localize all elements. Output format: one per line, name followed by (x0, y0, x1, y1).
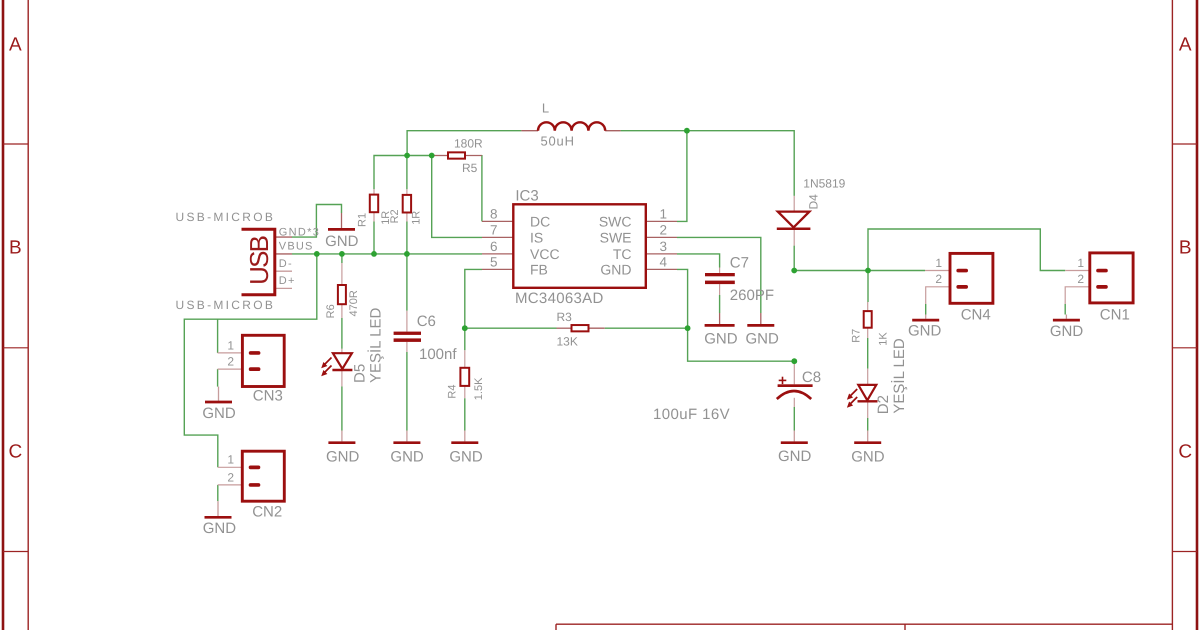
node L-input (junction) (404, 153, 410, 159)
svg-text:USB-MICROB: USB-MICROB (176, 298, 276, 312)
svg-text:USB: USB (244, 236, 274, 285)
wire IC pin2 SWE to ground (677, 237, 761, 313)
frame row separators (3, 143, 28, 145)
svg-text:CN3: CN3 (253, 388, 283, 405)
node FB-right (junction) (685, 325, 691, 331)
svg-text:CN4: CN4 (961, 306, 991, 323)
svg-text:SWE: SWE (600, 229, 632, 245)
R3 leads (557, 327, 572, 329)
R6 leads (341, 263, 343, 285)
ground (IC pin2 SWE) (746, 313, 780, 348)
wire LED D5 to ground (341, 386, 343, 430)
svg-text:100nf: 100nf (419, 346, 457, 363)
wire inductor output to D4 anode (621, 131, 795, 196)
svg-text:C: C (9, 441, 23, 462)
wire R5 to IC pin8 DC (481, 155, 483, 221)
wire CN1 pin2 to ground (1064, 304, 1066, 315)
svg-text:USB-MICROB: USB-MICROB (176, 210, 276, 224)
wire R3 to pin4 node (605, 327, 688, 329)
svg-text:7: 7 (490, 222, 498, 237)
svg-text:MC34063AD: MC34063AD (515, 290, 604, 307)
svg-text:100uF 16V: 100uF 16V (653, 406, 730, 423)
svg-text:CN1: CN1 (1100, 306, 1130, 323)
wire output rail down to R7 (867, 271, 869, 303)
ground (CN4) (908, 315, 942, 340)
svg-text:R6: R6 (325, 304, 337, 318)
capacitor C7 (705, 273, 735, 276)
svg-text:50uH: 50uH (541, 133, 575, 148)
ic IC3 MC34063AD box (513, 204, 646, 287)
wire VBUS to C6 (406, 254, 408, 311)
ground (C7) (704, 313, 738, 348)
svg-text:2: 2 (1077, 272, 1084, 286)
svg-text:R3: R3 (557, 310, 573, 324)
svg-text:GND: GND (746, 331, 780, 348)
svg-text:D4: D4 (806, 194, 820, 210)
connector CN3 (242, 335, 284, 386)
svg-text:1: 1 (935, 256, 942, 270)
diode D4 1N5819 (777, 212, 811, 229)
node VBUS-R2/C6 (junction) (404, 251, 410, 257)
CN2 pin2 lead (218, 484, 243, 486)
svg-text:C7: C7 (730, 254, 749, 271)
resistor R2 (403, 195, 411, 213)
D4 leads (793, 196, 795, 211)
node VOUT-C8 (junction) (791, 358, 797, 364)
svg-text:GND: GND (449, 449, 483, 466)
node SWC-L (junction) (684, 128, 690, 134)
CN3 pin2 lead (218, 368, 243, 370)
R7 leads (867, 302, 869, 311)
node VOUT-R7 (junction) (865, 268, 871, 274)
inductor L leads (521, 130, 538, 132)
ground (R4) (449, 431, 483, 466)
IC3 left pin leads (482, 220, 513, 222)
R5 leads (432, 155, 448, 157)
svg-text:4: 4 (660, 254, 668, 269)
capacitor C6 (394, 332, 421, 335)
svg-text:D2: D2 (875, 395, 892, 414)
svg-text:R5: R5 (462, 161, 478, 175)
svg-text:GND: GND (325, 233, 359, 250)
svg-text:1K: 1K (877, 332, 889, 346)
svg-text:GND: GND (390, 449, 424, 466)
svg-text:DC: DC (530, 213, 550, 229)
R2 leads (406, 156, 408, 190)
LED D5 leads (341, 349, 343, 353)
CN4 pin1 lead (925, 270, 950, 272)
R4 leads (464, 350, 466, 368)
wire IC pin4 GND down and to C8 node (677, 269, 794, 361)
wire R7 to LED D2 (867, 338, 869, 369)
node IS (junction) (429, 153, 435, 159)
ground (LED D5) (326, 431, 360, 466)
wire VBUS to R6 (341, 254, 343, 263)
node VBUS-R1 (junction) (371, 251, 377, 257)
svg-text:2: 2 (227, 470, 234, 484)
wire feedback node to R3 (465, 327, 557, 329)
svg-text:R4: R4 (446, 385, 458, 399)
wire D4 cathode to output rail (793, 246, 795, 271)
inductor L (538, 122, 605, 130)
wire USB GND*3 pin to GND symbol (292, 205, 342, 238)
frame inner borders (27, 0, 29, 630)
svg-text:1: 1 (1077, 256, 1084, 270)
svg-text:1: 1 (660, 206, 668, 221)
svg-text:GND: GND (202, 405, 236, 422)
svg-text:1R: 1R (411, 211, 423, 225)
led D2 YESIL LED (847, 385, 878, 408)
svg-text:YEŞİL LED: YEŞİL LED (890, 338, 908, 413)
CN1 pin1 lead (1065, 270, 1090, 272)
ground (CN3) (202, 387, 236, 422)
svg-text:1.5K: 1.5K (473, 377, 485, 400)
svg-text:IC3: IC3 (515, 188, 538, 205)
svg-text:R7: R7 (850, 329, 862, 343)
svg-text:SWC: SWC (599, 213, 632, 229)
frame outer borders (2, 0, 5, 630)
svg-text:1: 1 (227, 453, 234, 467)
svg-text:C: C (1178, 441, 1192, 462)
C6 leads (406, 311, 408, 332)
svg-text:2: 2 (660, 222, 668, 237)
wire IC pin1 SWC up to inductor node (677, 131, 687, 222)
capacitor C8 (polarized) (777, 377, 813, 399)
CN4 pin2 lead (926, 287, 950, 304)
ground (CN1) (1050, 315, 1084, 341)
C7 leads (719, 268, 721, 273)
title block outline (cropped) (556, 623, 1172, 625)
svg-text:C6: C6 (417, 313, 436, 330)
wire VBUS down-left to CN2 pin1 (184, 254, 316, 467)
svg-text:R1: R1 (357, 213, 369, 227)
svg-text:13K: 13K (557, 335, 578, 349)
resistor R3 (572, 325, 589, 331)
R1 leads (373, 189, 375, 194)
svg-text:GND: GND (326, 449, 360, 466)
svg-text:GND: GND (704, 331, 738, 348)
svg-text:C8: C8 (802, 369, 821, 386)
svg-text:8: 8 (490, 206, 498, 221)
node FB (junction) (462, 325, 468, 331)
svg-text:2: 2 (227, 355, 234, 369)
wire top node R1-R2-R5 (374, 156, 432, 190)
wire CN2 pin2 to ground (217, 485, 219, 501)
resistor R4 (460, 368, 469, 386)
svg-text:FB: FB (530, 261, 548, 277)
C8 leads (793, 361, 795, 384)
wire inductor feed from top node (407, 131, 521, 156)
svg-text:6: 6 (490, 239, 498, 254)
wire CN3 pin2 to ground (217, 369, 219, 387)
resistor R6 (338, 285, 346, 304)
svg-text:L: L (542, 101, 549, 116)
LED D2 leads (867, 369, 869, 385)
CN3 pin1 lead (218, 352, 243, 354)
svg-text:YEŞİL LED: YEŞİL LED (366, 308, 384, 383)
ground (USB GND*3) (325, 213, 359, 250)
node VBUS-R6 (junction) (339, 251, 345, 257)
wire C8 to ground (793, 407, 795, 431)
ground (LED D2) (851, 431, 885, 466)
ground (CN2) (203, 501, 237, 537)
node VOUT (junction) (791, 268, 797, 274)
wire top node to IC pin7 IS (432, 156, 482, 238)
connector CN4 (950, 253, 993, 303)
wire R4 to ground (464, 398, 466, 430)
svg-text:A: A (9, 35, 22, 56)
connector CN1 (1090, 253, 1133, 303)
svg-text:TC: TC (613, 246, 632, 262)
svg-text:GND: GND (203, 520, 237, 537)
svg-text:GND: GND (778, 448, 812, 465)
svg-text:VCC: VCC (530, 246, 560, 262)
svg-text:GND: GND (1050, 323, 1084, 340)
svg-text:GND: GND (908, 323, 942, 340)
resistor R1 (370, 195, 378, 213)
svg-text:D5: D5 (351, 364, 368, 383)
svg-text:B: B (1179, 238, 1192, 259)
connector CN2 (242, 451, 284, 501)
CN2 pin1 lead (218, 466, 243, 468)
svg-text:B: B (9, 238, 22, 259)
svg-text:IS: IS (530, 229, 543, 245)
svg-text:1N5819: 1N5819 (803, 177, 845, 191)
wire R6 to LED D5 (341, 318, 343, 349)
svg-text:CN2: CN2 (252, 503, 282, 520)
svg-text:5: 5 (490, 254, 498, 269)
node VBUS-CN (junction) (314, 251, 320, 257)
svg-text:2: 2 (935, 272, 942, 286)
svg-text:1: 1 (227, 338, 234, 352)
svg-text:3: 3 (660, 239, 668, 254)
svg-text:260PF: 260PF (730, 287, 774, 304)
IC3 right pin leads (646, 220, 677, 222)
usb connector USB (USB-MICROB) (242, 229, 275, 295)
svg-text:A: A (1179, 35, 1192, 56)
resistor R7 (864, 311, 872, 328)
wire C7 bottom to ground (719, 295, 721, 313)
CN1 pin2 lead (1065, 287, 1090, 304)
svg-text:GND: GND (851, 449, 885, 466)
svg-text:470R: 470R (348, 290, 360, 316)
wire VBUS rail to IC pin6 (292, 253, 482, 255)
USB pin leads (276, 236, 292, 238)
wire C6 to ground (406, 352, 408, 431)
wire branch to CN3 pin1 (217, 319, 219, 353)
ground (C6) (390, 431, 424, 466)
resistor R5 (448, 152, 465, 158)
svg-text:D+: D+ (279, 275, 296, 287)
svg-text:R2: R2 (389, 209, 401, 223)
wire CN4 pin2 to ground (925, 304, 927, 315)
wire IC pin5 FB to feedback node (465, 269, 482, 350)
svg-text:GND: GND (600, 261, 631, 277)
svg-text:D-: D- (279, 258, 293, 270)
led D5 YESIL LED (321, 353, 352, 376)
svg-text:VBUS: VBUS (279, 241, 314, 253)
wire LED D2 to ground (867, 418, 869, 431)
wire output rail up-over to CN1 pin1 (868, 229, 1065, 271)
ground (C8) (778, 431, 812, 466)
wire IC pin3 TC to C7 (677, 254, 720, 268)
wire output rail to CN4 pin1 (794, 270, 925, 272)
svg-text:GND*3: GND*3 (279, 227, 320, 239)
svg-text:180R: 180R (454, 137, 483, 151)
